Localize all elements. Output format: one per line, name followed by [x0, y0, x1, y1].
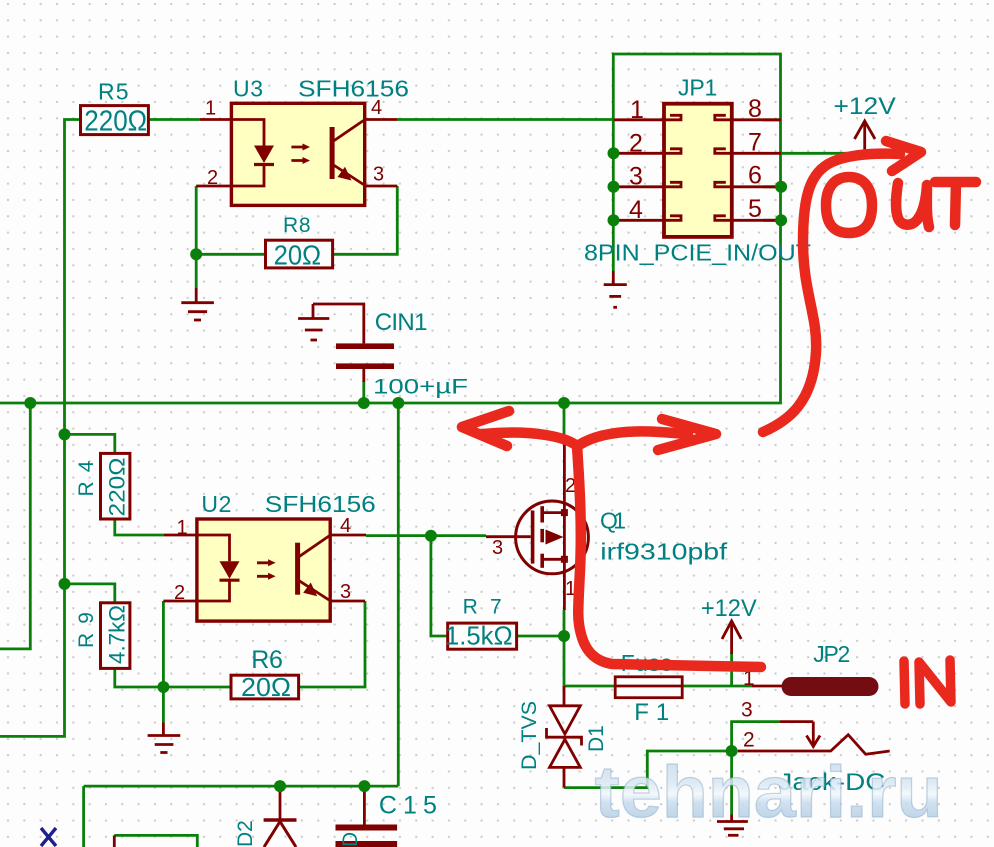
svg-text:4.7kΩ: 4.7kΩ [105, 605, 130, 664]
svg-text:8: 8 [748, 95, 762, 123]
resistor R9 (vertical) [75, 603, 130, 669]
junction JP1 pin2 [608, 147, 620, 159]
junction rail D2 [274, 780, 286, 792]
junction bus Q1 drain [558, 397, 570, 409]
ground (JP1) [604, 271, 627, 307]
junction R4 feed [59, 428, 71, 440]
svg-text:220Ω: 220Ω [84, 106, 147, 138]
wire JP1 pin7 to +12V [781, 152, 865, 155]
wire junction to R9 top [65, 584, 115, 603]
wire R6 right up to U2 pin3 [299, 601, 365, 687]
wire jack pin3 to gnd column [732, 722, 780, 751]
connector JP1 [584, 75, 811, 266]
svg-text:D_TVS: D_TVS [518, 701, 541, 770]
junction JP1 pin3 [608, 181, 620, 193]
diode D2 [234, 786, 362, 847]
wire junction to R4 top [65, 434, 115, 453]
transistor Q1 [486, 438, 728, 610]
wire main bus with JP1 frame [0, 54, 781, 403]
svg-text:D1: D1 [585, 725, 608, 752]
wire R5 left down to edge [0, 120, 81, 737]
svg-text:2: 2 [174, 582, 185, 604]
svg-text:2: 2 [629, 129, 643, 157]
junction R9 feed [59, 578, 71, 590]
ground (CIN1) [298, 304, 329, 340]
svg-text:3: 3 [340, 581, 351, 603]
TVS diode D1 [518, 686, 608, 788]
wire gnd stub below R6 junction [162, 687, 165, 723]
junction JP1 pin6 [775, 181, 787, 193]
wire +12V in to fuse wire [730, 652, 733, 686]
connector JP2 / Jack-DC [738, 641, 890, 796]
red marker OUT arrow curve [763, 141, 921, 432]
optocoupler U2 [163, 491, 375, 621]
wire R8 right up to U3 pin3 [333, 186, 398, 254]
wire Q1 source to junction [563, 610, 566, 636]
svg-text:6: 6 [748, 162, 762, 190]
junction R6 left [157, 681, 169, 693]
wire U2 pin4 to Q1 gate [366, 534, 486, 537]
svg-text:JP2: JP2 [813, 641, 850, 667]
red marker Y arrows at bus [462, 411, 761, 667]
junction Q1 gate [425, 530, 437, 542]
optocoupler U3 [196, 76, 409, 206]
power +12V (top, JP1) [834, 93, 896, 154]
junction R8 left [190, 248, 202, 260]
svg-text:JP1: JP1 [678, 75, 717, 101]
wire mid vertical from bus to rail [397, 403, 400, 786]
svg-text:1: 1 [205, 98, 216, 120]
wire R7 right to source junction [517, 635, 564, 638]
wire rail left drop [82, 786, 85, 847]
fuse F1 [615, 650, 682, 726]
wire source junction down to fuse [564, 636, 615, 686]
junction jack ground [726, 745, 738, 757]
svg-text:U2: U2 [201, 491, 231, 517]
svg-text:C15: C15 [379, 792, 437, 820]
svg-text:1: 1 [177, 517, 188, 539]
wire JP1 pin8 stub link [763, 118, 781, 121]
wire Q1 drain to bus [563, 403, 566, 438]
svg-text:8PIN_PCIE_IN/OUT: 8PIN_PCIE_IN/OUT [584, 240, 811, 266]
junction JP1 pin5 [775, 214, 787, 226]
junction Q1 source / R7 [558, 630, 570, 642]
svg-text:20Ω: 20Ω [274, 240, 322, 271]
svg-text:4: 4 [629, 196, 643, 224]
svg-text:3: 3 [629, 163, 643, 191]
svg-text:+12V: +12V [701, 595, 757, 622]
svg-text:SFH6156: SFH6156 [298, 76, 409, 102]
svg-text:4: 4 [340, 515, 351, 537]
junction bus left [24, 397, 36, 409]
wire gate junction down to R7 [431, 536, 448, 636]
svg-text:D2: D2 [234, 820, 257, 847]
svg-text:R5: R5 [98, 79, 129, 105]
svg-text:tehnari.ru: tehnari.ru [595, 752, 943, 833]
svg-text:1.5kΩ: 1.5kΩ [445, 621, 513, 651]
wire U3 pin4 to JP1 pin1 [398, 118, 614, 121]
svg-text:220Ω: 220Ω [105, 458, 130, 517]
svg-text:CIN1: CIN1 [375, 309, 428, 336]
svg-text:3: 3 [492, 537, 503, 559]
wire R4 bottom to U2 pin1 [115, 519, 164, 535]
resistor R8 [266, 214, 333, 271]
svg-text:3: 3 [741, 699, 753, 722]
wire R5 to U3 pin1 [148, 118, 200, 121]
svg-text:R8: R8 [283, 214, 311, 237]
partial component box bottom-left [114, 835, 197, 847]
junction bus CIN1 [358, 397, 370, 409]
svg-text:1: 1 [630, 96, 644, 124]
capacitor CIN1 [313, 304, 468, 399]
wire fuse right to JP2 pin1 [682, 685, 752, 688]
ground (R6/R9) [148, 723, 181, 753]
resistor R6 [231, 646, 299, 702]
svg-text:irf9310pbf: irf9310pbf [600, 539, 728, 565]
capacitor C15 [336, 786, 437, 847]
svg-text:3: 3 [373, 164, 384, 186]
wire R9 bottom to junction [115, 668, 164, 687]
ground (JP2) [717, 815, 748, 836]
junction bus mid vertical [392, 397, 404, 409]
junction JP1 pin4 [608, 214, 620, 226]
svg-text:2: 2 [207, 167, 218, 189]
svg-text:R6: R6 [251, 646, 283, 674]
svg-text:100+µF: 100+µF [373, 376, 468, 399]
junction rail C15 [358, 780, 370, 792]
svg-text:20Ω: 20Ω [241, 672, 291, 702]
wire gnd stub below jack junction [730, 751, 733, 815]
red marker IN text [904, 660, 951, 704]
svg-text:+12V: +12V [834, 93, 896, 120]
ground (U3/R8) [181, 288, 214, 320]
svg-text:SFH6156: SFH6156 [265, 491, 376, 517]
wire bottom rail [84, 785, 399, 788]
no-connect X mark [41, 828, 56, 846]
wire gnd stub below R8 junction [195, 254, 198, 288]
svg-text:2: 2 [743, 729, 755, 752]
svg-text:U3: U3 [233, 76, 263, 102]
dark marker bar over JP2 pin1 [791, 677, 869, 696]
watermark tehnari.ru [595, 752, 943, 833]
power +12V (bottom, JP2) [701, 595, 757, 654]
red marker OUT text [826, 177, 976, 233]
resistor R7 [445, 596, 517, 651]
svg-text:D: D [339, 832, 362, 847]
wire CIN1 bottom to bus [362, 381, 365, 403]
svg-text:4: 4 [371, 97, 382, 119]
svg-text:Q1: Q1 [600, 508, 626, 534]
svg-text:7: 7 [748, 128, 762, 156]
wire bus branch left column [0, 403, 30, 649]
wire TVS bottom to jack gnd net [564, 751, 726, 788]
svg-text:5: 5 [748, 195, 762, 223]
wire JP1 right pins link [763, 187, 781, 221]
wire U3 pin2 down to R8 left [196, 186, 265, 254]
resistor R5 [81, 79, 149, 138]
resistor R4 (vertical) [75, 453, 130, 519]
wire U2 pin2 down to R6 junction [163, 601, 231, 687]
